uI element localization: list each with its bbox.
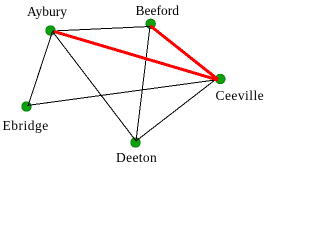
- node Beeford: [146, 19, 156, 29]
- edge Aybury-Deeton: [53, 32, 137, 142]
- label Ebridge: [3, 119, 49, 132]
- edge Aybury-Ceeville (red): [54, 32, 218, 81]
- edge Beeford-Ceeville (red): [150, 26, 218, 80]
- edge Ceeville-Deeton: [136, 80, 215, 141]
- node Ebridge: [22, 102, 32, 112]
- label Deeton: [116, 151, 157, 164]
- label Ceeville: [216, 89, 265, 102]
- edge Beeford-Deeton: [136, 27, 150, 142]
- node Deeton: [131, 138, 141, 148]
- edge Aybury-Beeford: [53, 27, 151, 32]
- node Ceeville: [216, 74, 226, 84]
- edge Aybury-Ebridge: [28, 32, 53, 107]
- edge Ebridge-Ceeville: [27, 80, 215, 106]
- node Aybury: [46, 26, 56, 36]
- label Aybury: [27, 5, 67, 18]
- label Beeford: [136, 4, 179, 17]
